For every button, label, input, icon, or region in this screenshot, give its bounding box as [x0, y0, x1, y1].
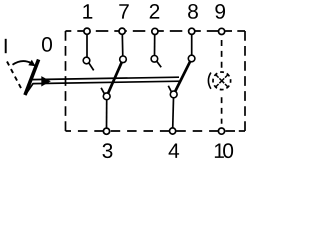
terminal 9 circle	[219, 28, 225, 34]
pin label 4	[169, 144, 180, 158]
pin label 1	[83, 4, 92, 18]
pin label 8	[188, 4, 198, 19]
switch body outline left edge	[65, 31, 67, 131]
pin label 7	[119, 4, 129, 18]
contact 3 arm	[101, 88, 104, 94]
contact 1 circle	[83, 57, 90, 64]
contact 7 circle	[120, 56, 127, 63]
lever (position I, solid thick)	[25, 60, 39, 96]
terminal 3 circle	[103, 128, 109, 134]
pin label 10	[215, 143, 233, 158]
contact 3 circle	[103, 93, 110, 100]
switch body outline (dashed rectangle) top edge	[66, 30, 233, 32]
label position 0	[42, 37, 52, 52]
wire lamp to terminal 10 (dashed)	[221, 97, 223, 124]
contact 2 circle	[151, 56, 158, 63]
optional bracket (	[208, 73, 211, 89]
contact 8 circle	[188, 55, 195, 62]
pin label 3	[102, 143, 112, 158]
terminal 1 circle	[84, 28, 90, 34]
pin label 9	[215, 4, 225, 19]
terminal 10 circle	[218, 128, 224, 134]
movable bridge upper bar	[31, 77, 179, 79]
lever alternate position (dashed)	[7, 62, 22, 90]
bridge contact 8 to contact 4	[175, 62, 190, 92]
terminal 4 stem	[172, 98, 175, 129]
contact 1 arm	[89, 63, 94, 70]
terminal 4 circle	[170, 128, 176, 134]
switch body outline bottom edge	[66, 130, 237, 132]
label position I	[5, 39, 7, 53]
movable bridge lower bar	[25, 81, 181, 95]
switch body outline right edge	[244, 31, 246, 131]
pin label 2	[150, 4, 160, 19]
terminal 2 stem	[154, 33, 156, 56]
contact 2 arm	[157, 62, 161, 68]
terminal 7 stem	[121, 33, 124, 57]
contact 4 arm	[168, 86, 171, 92]
terminal 7 circle	[119, 28, 125, 34]
terminal 1 stem	[86, 33, 88, 58]
bridge direction arrowhead	[41, 76, 51, 86]
terminal 2 circle	[152, 28, 158, 34]
lamp L1 (optional illumination, dashed circle)	[213, 72, 231, 90]
wire terminal 9 to lamp (dashed)	[221, 40, 223, 68]
actuation arc arrow	[13, 61, 32, 65]
lamp X center cross	[219, 78, 224, 83]
terminal 3 stem	[106, 100, 108, 129]
terminal 8 circle	[189, 28, 195, 34]
bridge contact 7 to contact 3	[108, 62, 122, 93]
terminal 8 stem	[191, 33, 193, 56]
lamp X radial strokes	[216, 75, 228, 87]
contact 4 circle	[170, 91, 177, 98]
